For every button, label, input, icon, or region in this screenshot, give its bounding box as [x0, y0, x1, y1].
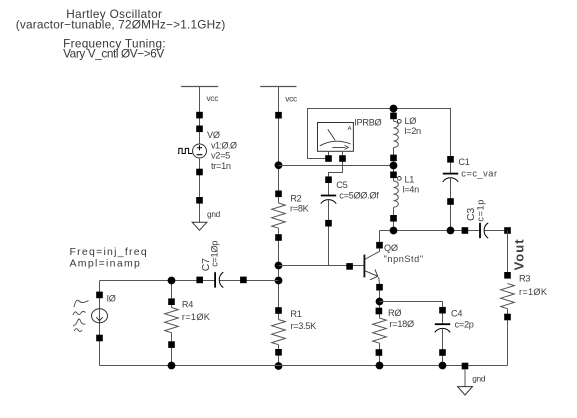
- svg-text:RØ: RØ: [388, 308, 401, 318]
- svg-text:Vary V_cntl ØV−>6V: Vary V_cntl ØV−>6V: [63, 47, 164, 61]
- svg-text:tr=1n: tr=1n: [211, 161, 231, 171]
- svg-text:c=5ØØ.Øf: c=5ØØ.Øf: [339, 191, 379, 201]
- svg-text:C4: C4: [451, 308, 462, 318]
- svg-text:r=8K: r=8K: [290, 204, 310, 214]
- svg-text:Vout: Vout: [512, 238, 527, 270]
- svg-text:r=3.5K: r=3.5K: [290, 321, 317, 331]
- svg-text:gnd: gnd: [472, 373, 486, 383]
- svg-text:R1: R1: [290, 309, 301, 319]
- svg-text:L1: L1: [405, 174, 415, 184]
- svg-text:R3: R3: [519, 274, 530, 284]
- svg-text:Ampl=inamp: Ampl=inamp: [70, 258, 142, 270]
- svg-text:IPRBØ: IPRBØ: [354, 117, 381, 127]
- svg-text:r=1ØK: r=1ØK: [519, 287, 548, 297]
- svg-text:l=2n: l=2n: [404, 126, 421, 136]
- svg-text:R2: R2: [290, 193, 301, 203]
- svg-text:"npnStd": "npnStd": [384, 254, 424, 264]
- svg-text:vcc: vcc: [285, 94, 297, 104]
- svg-text:r=18Ø: r=18Ø: [390, 319, 414, 329]
- svg-text:R4: R4: [182, 300, 193, 310]
- svg-text:(varactor−tunable, 72ØMHz−>1.1: (varactor−tunable, 72ØMHz−>1.1GHz): [16, 18, 226, 32]
- svg-text:Freq=inj_freq: Freq=inj_freq: [70, 246, 148, 258]
- svg-text:C5: C5: [336, 180, 347, 190]
- svg-text:r=1ØK: r=1ØK: [182, 312, 211, 322]
- svg-text:v2=5: v2=5: [211, 150, 230, 160]
- svg-text:QØ: QØ: [384, 243, 398, 253]
- svg-text:A: A: [348, 126, 352, 132]
- svg-text:LØ: LØ: [405, 116, 417, 126]
- svg-text:VØ: VØ: [207, 130, 220, 140]
- svg-text:c=1Øp: c=1Øp: [210, 241, 220, 267]
- svg-text:vcc: vcc: [207, 93, 219, 103]
- svg-text:gnd: gnd: [207, 209, 221, 219]
- svg-text:v1:Ø.Ø: v1:Ø.Ø: [211, 140, 237, 150]
- svg-text:c=c_var: c=c_var: [461, 169, 497, 179]
- svg-text:C1: C1: [458, 157, 469, 167]
- svg-text:l=4n: l=4n: [403, 185, 420, 195]
- svg-text:c=2p: c=2p: [455, 320, 474, 330]
- svg-text:IØ: IØ: [107, 294, 116, 304]
- svg-text:c=1p: c=1p: [476, 199, 486, 222]
